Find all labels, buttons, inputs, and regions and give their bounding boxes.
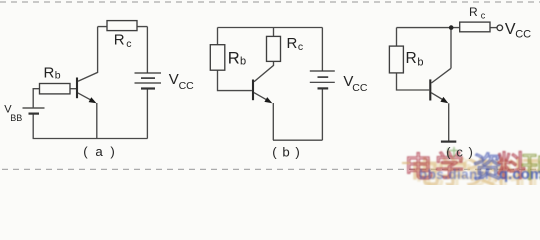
svg-text:c: c	[481, 11, 486, 21]
svg-text:b: b	[240, 56, 246, 68]
svg-text:BB: BB	[10, 113, 22, 123]
svg-text:R: R	[114, 32, 125, 49]
svg-text:c: c	[126, 38, 131, 50]
svg-text:V: V	[169, 71, 179, 88]
svg-text:CC: CC	[179, 80, 195, 92]
svg-text:CC: CC	[515, 28, 531, 40]
svg-text:( b ): ( b )	[272, 145, 300, 160]
svg-text:R: R	[469, 5, 478, 19]
svg-text:R: R	[406, 50, 417, 67]
svg-text:CC: CC	[352, 82, 368, 94]
svg-text:bbs.dianzi: bbs.dianzi	[419, 167, 489, 182]
svg-text:q.com: q.com	[499, 166, 540, 183]
svg-text:R: R	[44, 64, 55, 81]
svg-text:( c ): ( c )	[446, 145, 474, 160]
svg-text:R: R	[287, 35, 298, 52]
svg-text:b: b	[417, 57, 423, 69]
svg-text:R: R	[228, 50, 240, 68]
svg-text:( a ): ( a )	[83, 144, 116, 159]
svg-text:c: c	[298, 41, 303, 53]
svg-text:b: b	[55, 70, 61, 82]
